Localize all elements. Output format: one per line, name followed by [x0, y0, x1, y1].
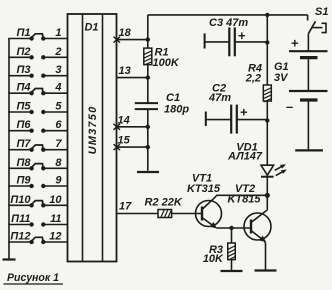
wire switch П1 to pin 1 [43, 38, 67, 40]
ground battery [295, 149, 323, 151]
wire switch П7 to pin 7 [43, 149, 67, 151]
ground left bus [3, 258, 16, 260]
wire VD1 to collector node [266, 177, 268, 196]
switch П10 [10, 194, 45, 208]
wire C2 node to VD1 [266, 121, 268, 166]
svg-text:П12: П12 [10, 231, 30, 243]
switch П9 [16, 175, 45, 189]
svg-text:+: + [291, 36, 299, 51]
switch П2 [16, 46, 45, 60]
svg-text:12: 12 [49, 231, 61, 243]
svg-text:100K: 100K [153, 57, 180, 69]
svg-text:R2 22K: R2 22K [145, 197, 183, 209]
svg-text:S1: S1 [315, 6, 328, 18]
svg-text:П9: П9 [16, 175, 31, 187]
wire bus to switch П3 [8, 75, 31, 77]
svg-text:KT815: KT815 [227, 194, 261, 206]
pin 11 label [50, 213, 61, 225]
switch П3 [16, 64, 45, 78]
wire bus to switch П11 [8, 224, 31, 226]
svg-text:10K: 10K [203, 253, 224, 265]
wire switch П3 to pin 3 [43, 75, 67, 77]
pin 7 label [55, 138, 62, 150]
svg-text:D1: D1 [84, 22, 98, 34]
switch П11 [11, 213, 45, 227]
svg-text:П8: П8 [16, 157, 31, 169]
wire bus to switch П12 [8, 241, 31, 243]
pin 2 label [54, 46, 61, 58]
svg-text:+: + [238, 28, 246, 43]
pin 14 wire [117, 114, 148, 127]
capacitor C2 [206, 83, 267, 134]
wire S1 to battery + [307, 34, 309, 52]
svg-text:C3 47m: C3 47m [209, 17, 248, 29]
wire battery - to ground [307, 100, 309, 149]
wire bus to switch П9 [8, 185, 31, 187]
node pin18/R1 junction [146, 37, 150, 41]
svg-text:7: 7 [55, 138, 62, 150]
svg-text:4: 4 [54, 82, 61, 94]
svg-text:C1: C1 [166, 92, 180, 104]
wire bus to switch П4 [8, 92, 31, 94]
svg-text:6: 6 [55, 119, 62, 131]
pin 10 label [49, 194, 62, 206]
wire bus to switch П6 [8, 130, 31, 132]
pin 5 label [55, 101, 62, 113]
svg-text:П5: П5 [16, 101, 31, 113]
pin 13 wire [117, 65, 148, 78]
pin 4 label [54, 82, 61, 94]
wire switch П2 to pin 2 [43, 56, 67, 58]
wire rail to R4 [266, 15, 268, 85]
wire bus to switch П8 [8, 167, 31, 169]
pin 17 wire [117, 201, 159, 214]
svg-text:П6: П6 [16, 119, 31, 131]
battery G1 3V [274, 36, 328, 115]
svg-text:9: 9 [55, 175, 62, 187]
pin 14 cross mark [114, 124, 121, 130]
pin 15 wire [117, 135, 148, 148]
pin 18 wire [117, 27, 148, 40]
switch П1 [16, 27, 45, 41]
node C2/VD1 junction [265, 118, 269, 122]
node pin13/R1/C1 junction [146, 75, 150, 79]
wire VT1 collector to node [216, 194, 267, 197]
wire bus to switch П10 [8, 204, 31, 206]
resistor R3 [203, 243, 235, 265]
svg-text:UM3750: UM3750 [87, 106, 99, 155]
pin 8 label [55, 157, 62, 169]
svg-text:2,2: 2,2 [245, 73, 261, 85]
wire top rail corner to R1 [147, 15, 149, 48]
wire switch П10 to pin 10 [43, 204, 67, 206]
wire switch П6 to pin 6 [43, 130, 67, 132]
switch П6 [16, 119, 45, 133]
switch П5 [16, 101, 45, 115]
wire top supply rail [148, 14, 308, 16]
svg-text:–: – [286, 99, 293, 114]
wire switch П11 to pin 11 [43, 224, 67, 226]
wire switch П8 to pin 8 [43, 167, 67, 169]
wire VT2 collector to node [266, 195, 269, 210]
wire left common bus [8, 39, 10, 259]
svg-text:АЛ147: АЛ147 [227, 151, 263, 163]
svg-text:П3: П3 [16, 64, 30, 76]
svg-text:KT315: KT315 [187, 183, 221, 195]
node C3/R4 junction [265, 40, 269, 44]
node R3 junction [229, 226, 233, 230]
capacitor C1 [135, 92, 190, 116]
ground under C1 [137, 171, 159, 173]
wire bus to switch П7 [8, 149, 31, 151]
wire switch П4 to pin 4 [43, 92, 67, 94]
wire VT2 emitter to ground [265, 241, 266, 270]
wire switch П9 to pin 9 [43, 185, 67, 187]
pin 18 cross mark [114, 37, 121, 43]
svg-text:11: 11 [50, 213, 61, 225]
wire R3 to ground [231, 260, 233, 270]
svg-text:П2: П2 [16, 46, 30, 58]
pin 3 label [55, 64, 61, 76]
wire C1 to ground [147, 109, 149, 171]
caption Рисунок 1 [4, 272, 64, 284]
wire R1 to C1 [147, 65, 149, 104]
svg-text:5: 5 [55, 101, 62, 113]
svg-text:+: + [240, 105, 248, 120]
svg-text:10: 10 [49, 194, 62, 206]
transistor VT2 KT815 [227, 183, 271, 242]
svg-text:8: 8 [55, 157, 62, 169]
svg-text:180p: 180p [164, 104, 189, 116]
switch П4 [16, 82, 45, 96]
wire switch П5 to pin 5 [43, 111, 67, 113]
switch П12 [10, 231, 45, 245]
diode VD1 АЛ147 [227, 142, 274, 177]
svg-text:13: 13 [119, 65, 131, 77]
ground R3 [221, 270, 243, 272]
resistor R4 [245, 63, 272, 103]
svg-text:П7: П7 [16, 138, 31, 150]
wire R2 to VT1 base [172, 213, 202, 215]
resistor R1 [144, 47, 180, 70]
transistor VT1 KT315 [187, 173, 222, 229]
svg-text:П1: П1 [16, 27, 30, 39]
wire switch П12 to pin 12 [43, 241, 67, 243]
svg-text:1: 1 [55, 27, 61, 39]
wire VT1 emitter to VT2 base [216, 227, 251, 229]
switch S1 [308, 6, 329, 34]
pin 9 label [55, 175, 62, 187]
svg-text:П10: П10 [10, 194, 31, 206]
node pin14 junction [146, 125, 150, 129]
svg-text:18: 18 [119, 27, 132, 39]
capacitor C3 [205, 17, 268, 56]
VD1 emission arrows [275, 164, 287, 175]
switch П7 [16, 138, 45, 152]
wire bus to switch П1 [8, 38, 31, 40]
wire bus to switch П2 [8, 56, 31, 58]
chip D1 UM3750 body [68, 14, 117, 262]
svg-text:17: 17 [119, 201, 132, 213]
svg-text:П4: П4 [16, 82, 30, 94]
switch П8 [16, 157, 45, 171]
resistor R2 [145, 197, 183, 218]
svg-text:2: 2 [54, 46, 61, 58]
wire VT2 base node to R3 [231, 228, 233, 243]
svg-text:Рисунок 1: Рисунок 1 [7, 272, 59, 284]
wire bus to switch П5 [8, 111, 31, 113]
node collectors/VD1 [265, 193, 270, 198]
pin 15 cross mark [114, 144, 121, 150]
node pin15 junction [146, 145, 150, 149]
pin 1 label [55, 27, 61, 39]
node top rail / R4 branch [265, 13, 269, 17]
svg-text:3: 3 [55, 64, 61, 76]
svg-text:П11: П11 [11, 213, 30, 225]
svg-text:3V: 3V [274, 72, 289, 84]
wire R4 to C2 node [266, 101, 268, 121]
pin 6 label [55, 119, 62, 131]
svg-text:47m: 47m [208, 92, 231, 104]
ground VT2 emitter [255, 269, 277, 271]
pin 12 label [49, 231, 61, 243]
